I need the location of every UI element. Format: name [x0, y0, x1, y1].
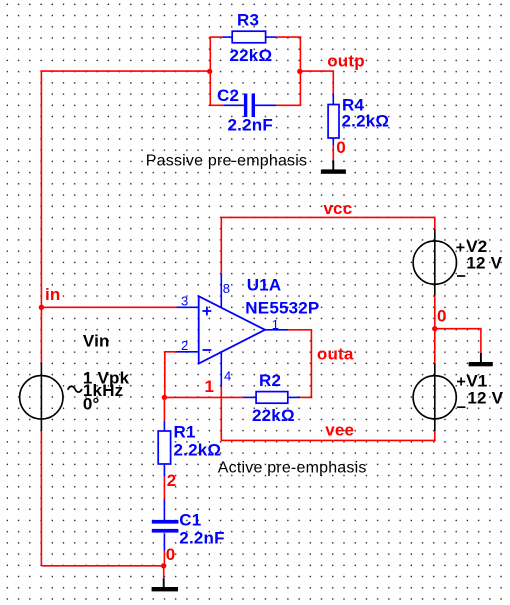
- junction dot right of parallel block: [297, 69, 302, 74]
- svg-text:vee: vee: [325, 421, 354, 440]
- wire node1 horizontal to R2: [164, 396, 243, 398]
- svg-text:1: 1: [205, 377, 215, 396]
- wire C2 left: [210, 104, 224, 106]
- source Vin: [20, 363, 82, 431]
- svg-text:V1: V1: [466, 371, 487, 390]
- wire parallel-block right vertical: [299, 37, 301, 105]
- wire pin1 to outa corner: [288, 329, 312, 331]
- pin 2 stub: [177, 351, 199, 353]
- svg-text:R1: R1: [174, 423, 196, 442]
- svg-text:1: 1: [272, 317, 279, 332]
- wire pin2 to node 1: [165, 352, 177, 398]
- pin 3 stub: [177, 306, 199, 308]
- wire R4 bottom: [332, 146, 334, 161]
- wire R1 to C1: [163, 477, 165, 499]
- svg-text:outp: outp: [327, 52, 365, 71]
- wire node 0 to V1: [434, 329, 436, 364]
- wire vee horizontal: [221, 439, 436, 441]
- wire top horizontal (in net, y=71): [41, 70, 210, 72]
- svg-text:2.2kΩ: 2.2kΩ: [342, 111, 390, 130]
- junction dot node 0: [432, 326, 437, 331]
- junction dot left of parallel block: [207, 69, 212, 74]
- pin 1 stub: [265, 329, 288, 331]
- svg-text:22kΩ: 22kΩ: [230, 46, 273, 65]
- wire bottom horizontal: [41, 565, 163, 567]
- resistor R1: [158, 421, 170, 477]
- wire node 0 to right ground: [435, 329, 481, 353]
- wire outp (junction to R4 top): [300, 71, 334, 94]
- op-amp U1A: [199, 296, 265, 363]
- capacitor C1: [152, 499, 179, 551]
- svg-text:8: 8: [223, 281, 230, 296]
- svg-text:vcc: vcc: [323, 199, 352, 218]
- svg-text:Vin: Vin: [83, 331, 110, 350]
- svg-text:R3: R3: [237, 11, 259, 30]
- wire C2 right: [276, 104, 301, 106]
- svg-text:12 V: 12 V: [467, 389, 503, 408]
- svg-text:22kΩ: 22kΩ: [252, 406, 295, 425]
- wire R3 left: [210, 36, 223, 38]
- source V1: [413, 363, 465, 431]
- wire left vertical upper (in net): [40, 70, 42, 362]
- ground (bottom): [152, 578, 178, 591]
- source V2: [413, 229, 465, 296]
- resistor R2: [244, 392, 301, 404]
- wire parallel-block left vertical: [209, 37, 211, 105]
- svg-text:in: in: [45, 285, 61, 304]
- svg-text:0: 0: [437, 306, 447, 325]
- resistor R3: [223, 31, 277, 43]
- capacitor C2: [223, 94, 276, 118]
- svg-text:2: 2: [167, 471, 177, 490]
- svg-text:outa: outa: [317, 345, 354, 364]
- svg-text:2.2nF: 2.2nF: [228, 115, 273, 134]
- ground (below R4): [321, 160, 346, 173]
- svg-text:R2: R2: [259, 371, 281, 390]
- ground (right, supply): [469, 353, 493, 367]
- svg-text:Active pre-emphasis: Active pre-emphasis: [218, 460, 367, 477]
- junction dot node 1: [162, 395, 167, 400]
- wire C1 to bottom junction: [163, 551, 165, 567]
- svg-text:Passive pre-emphasis: Passive pre-emphasis: [146, 152, 307, 169]
- svg-text:NE5532P: NE5532P: [245, 299, 319, 318]
- wire junction to ground stub: [163, 566, 165, 578]
- svg-text:C2: C2: [217, 86, 239, 105]
- svg-text:0°: 0°: [83, 395, 100, 414]
- svg-text:12 V: 12 V: [466, 254, 502, 273]
- junction dot bottom: [161, 563, 166, 568]
- pin 8 stub: [220, 273, 222, 308]
- wire V2 to node 0: [434, 296, 436, 330]
- wire pin4 down to vee: [220, 387, 222, 442]
- svg-text:4: 4: [224, 368, 231, 383]
- pin 4 stub: [220, 352, 222, 387]
- svg-text:0: 0: [166, 545, 176, 564]
- resistor R4: [328, 94, 339, 146]
- wire in (junction to pin 3): [41, 306, 176, 308]
- wire left vertical lower (below Vin): [40, 431, 42, 566]
- wire V1 to vee corner: [434, 431, 436, 441]
- wire vcc (pin8 up, across, down to V2): [221, 217, 434, 273]
- svg-text:0: 0: [336, 138, 346, 157]
- wire R3 right: [276, 36, 301, 38]
- svg-text:C1: C1: [179, 510, 201, 529]
- svg-text:2.2kΩ: 2.2kΩ: [174, 440, 222, 459]
- svg-text:2.2nF: 2.2nF: [179, 528, 224, 547]
- svg-text:U1A: U1A: [247, 276, 282, 295]
- wire R2 right to outa vertical: [300, 396, 312, 398]
- svg-text:2: 2: [181, 338, 188, 353]
- junction dot in: [39, 305, 44, 310]
- wire outa vertical: [310, 330, 312, 398]
- wire node1 to R1: [163, 397, 165, 420]
- svg-text:3: 3: [181, 293, 188, 308]
